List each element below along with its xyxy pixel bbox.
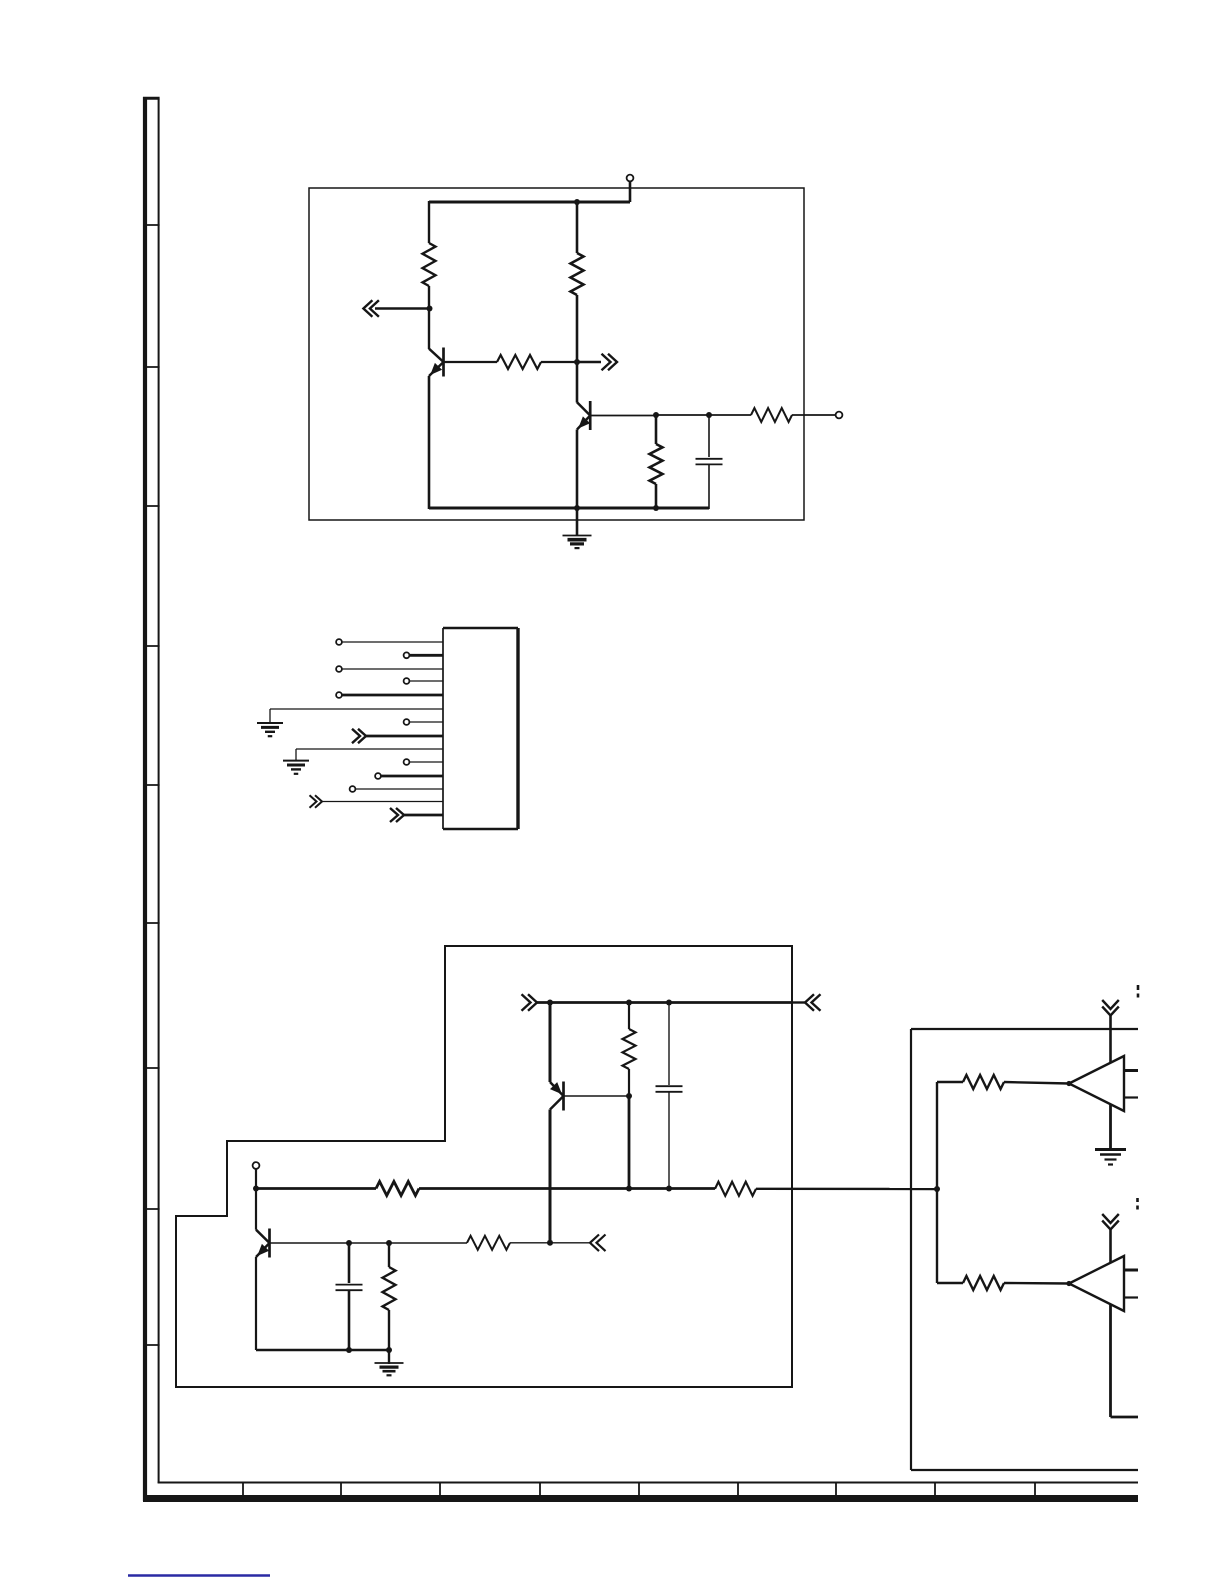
pin 6 wire bbox=[270, 709, 443, 723]
terminal P3 bbox=[253, 1162, 260, 1169]
pin 14 wire bbox=[404, 814, 443, 817]
pin 5 terminal bbox=[336, 692, 342, 698]
resistor R2 bbox=[497, 355, 541, 369]
ground GND4 bbox=[375, 1363, 404, 1375]
pin 11 wire bbox=[381, 775, 443, 778]
amplifier block box bbox=[309, 188, 804, 520]
node rail-R6 bbox=[626, 1000, 632, 1006]
pin 7 terminal bbox=[404, 719, 410, 725]
ground GND2 bbox=[257, 723, 283, 736]
node Q3-Q4 link bbox=[547, 1240, 553, 1246]
wire right branch upper bbox=[576, 202, 579, 253]
wire Q1 base lead bbox=[444, 361, 498, 363]
resistor R6 bbox=[623, 1029, 636, 1069]
driver block box bbox=[176, 946, 792, 1387]
pin 11 terminal bbox=[375, 773, 381, 779]
wire Q3 collector bbox=[549, 1001, 552, 1082]
wire P1 stub bbox=[629, 182, 632, 203]
ground GND5 bbox=[1095, 1150, 1126, 1165]
hyperlink underline bbox=[128, 1574, 270, 1577]
wire R6 stub bbox=[628, 1003, 630, 1030]
ground GND3 bbox=[283, 761, 309, 774]
wire R5 stub bottom bbox=[655, 484, 658, 509]
pin U1 out2 bbox=[1124, 1096, 1138, 1098]
wire Q3 base lead bbox=[564, 1095, 630, 1097]
wire Q4 emitter down bbox=[255, 1257, 257, 1350]
terminal P1 bbox=[627, 175, 634, 182]
wire to R11 bbox=[937, 1081, 963, 1083]
off-page connector OUT-A bbox=[602, 354, 618, 371]
node R10 top bbox=[386, 1240, 392, 1246]
wire R3 to Q2 bbox=[576, 295, 579, 403]
wire to R12 bbox=[937, 1282, 963, 1284]
wire Q2 base lead bbox=[590, 415, 656, 417]
wire base bus bbox=[349, 1242, 389, 1244]
resistor R3 bbox=[571, 253, 584, 295]
power arrow U2 bbox=[1102, 1214, 1119, 1230]
node mid-left bbox=[253, 1186, 259, 1192]
node C3 top bbox=[346, 1240, 352, 1246]
node Q1 base net bbox=[574, 359, 580, 365]
node Q3 base bbox=[626, 1093, 632, 1099]
pin 12 terminal bbox=[350, 786, 356, 792]
wire R12 to U2 bbox=[1004, 1282, 1069, 1285]
wire to R9 bbox=[389, 1242, 467, 1244]
connector J1 body bbox=[443, 628, 518, 829]
pin 9 wire bbox=[296, 749, 443, 760]
wire R1 to Q1 bbox=[428, 286, 430, 349]
wire emitter bus bbox=[256, 1349, 389, 1351]
wire split vertical bbox=[936, 1082, 938, 1283]
wire C2 stub top bbox=[668, 1003, 670, 1086]
pin 8 wire bbox=[366, 735, 443, 738]
wire Q4 collector bbox=[255, 1189, 257, 1230]
resistor R9 bbox=[467, 1236, 510, 1250]
ground GND1 bbox=[563, 536, 592, 549]
off-page connector IN-A bbox=[363, 300, 429, 317]
wire gnd stem bbox=[576, 508, 579, 536]
wire C3 stub top bbox=[348, 1243, 351, 1283]
pin U2 out2 bbox=[1124, 1296, 1138, 1298]
off-page connector pin13 bbox=[310, 795, 323, 807]
pin 4 terminal bbox=[404, 678, 410, 684]
wire mid bus bbox=[419, 1187, 715, 1190]
terminal P2 bbox=[836, 412, 843, 419]
transistor Q3 bbox=[550, 1082, 564, 1111]
wire Q3 emitter down bbox=[549, 1110, 552, 1244]
wire mid bus left bbox=[256, 1187, 376, 1190]
pin 3 wire bbox=[342, 668, 443, 670]
wire U2 vcc bbox=[1109, 1229, 1112, 1263]
node mid-C2 bbox=[666, 1186, 672, 1192]
resistor R4 bbox=[751, 408, 792, 422]
off-page connector pin8 bbox=[352, 729, 366, 743]
capacitor C1 bbox=[696, 459, 723, 465]
resistor R5 bbox=[650, 444, 663, 484]
power arrow U1 bbox=[1102, 1000, 1119, 1016]
wire ground bus bbox=[429, 507, 709, 510]
off-page connector VREG out bbox=[805, 994, 821, 1011]
wire U1 vcc bbox=[1109, 1015, 1112, 1063]
wire R5 stub top bbox=[655, 415, 658, 444]
wire R6 to base node bbox=[628, 1069, 630, 1097]
off-page connector FB bbox=[590, 1235, 606, 1252]
pin 5 wire bbox=[342, 694, 443, 697]
wire R10 stub bottom bbox=[388, 1310, 390, 1350]
node base node A bbox=[427, 306, 433, 312]
node VCC junction bbox=[574, 199, 580, 205]
op-amp U1 bbox=[1069, 1056, 1124, 1111]
wire R4 to P2 bbox=[792, 414, 835, 416]
pin 1 wire bbox=[342, 641, 443, 643]
wire left branch upper bbox=[428, 201, 430, 243]
wire C1 stub bottom bbox=[708, 464, 710, 509]
op-amp U2 bbox=[1069, 1256, 1124, 1311]
node C1 top bbox=[706, 412, 712, 418]
wire Q2 emitter down bbox=[576, 430, 579, 510]
comparator block box bbox=[911, 1029, 1138, 1470]
wire to off-page bbox=[577, 361, 601, 363]
wire C1 stub top bbox=[708, 415, 710, 457]
pin 3 terminal bbox=[336, 666, 342, 672]
capacitor C2 bbox=[656, 1086, 683, 1092]
wire mid bus right bbox=[756, 1188, 937, 1191]
node rail-Q3 bbox=[547, 1000, 553, 1006]
wire base net bbox=[656, 414, 709, 416]
transistor Q2 bbox=[577, 401, 590, 430]
wire R11 to U1 bbox=[1004, 1082, 1069, 1084]
wire P3 stub bbox=[255, 1169, 257, 1189]
clipped text U1 bbox=[1137, 985, 1140, 998]
node mid-R6 bbox=[626, 1186, 632, 1192]
wire U1 gnd stem bbox=[1109, 1105, 1112, 1149]
pin 1 terminal bbox=[336, 639, 342, 645]
node gnd bus 1 bbox=[574, 505, 580, 511]
transistor Q4 bbox=[256, 1229, 270, 1258]
wire Q1 emitter down bbox=[428, 376, 431, 509]
node ebus-C3 bbox=[346, 1347, 352, 1353]
wire R6 node down bbox=[628, 1097, 631, 1189]
wire VREG rail ext bbox=[792, 1001, 805, 1003]
node rail-C2 bbox=[666, 1000, 672, 1006]
pin 10 wire bbox=[410, 761, 444, 763]
resistor R10 bbox=[383, 1267, 396, 1310]
node ebus-R10 bbox=[386, 1347, 392, 1353]
wire R2 to node bbox=[541, 361, 577, 363]
pin U2 out1 bbox=[1124, 1269, 1138, 1272]
resistor R11 bbox=[963, 1075, 1004, 1089]
resistor R12 bbox=[963, 1276, 1004, 1290]
wire R10 stub top bbox=[388, 1243, 390, 1267]
capacitor C3 bbox=[336, 1285, 363, 1291]
wire R9 to node bbox=[510, 1242, 550, 1244]
wire C2 stub bottom bbox=[668, 1092, 670, 1189]
pin 13 wire bbox=[322, 801, 443, 803]
pin 7 wire bbox=[410, 721, 444, 723]
resistor R1 bbox=[423, 243, 436, 286]
pin 12 wire bbox=[356, 788, 444, 790]
pin U1 out1 bbox=[1124, 1069, 1138, 1072]
pin 10 terminal bbox=[404, 759, 410, 765]
node input split bbox=[934, 1186, 940, 1192]
pin 2 wire bbox=[410, 654, 444, 657]
wire C3 stub bottom bbox=[348, 1290, 351, 1350]
wire gnd stem 4 bbox=[388, 1350, 390, 1364]
off-page connector pin14 bbox=[390, 808, 404, 822]
off-page connector VREG in bbox=[522, 994, 538, 1011]
pin 2 terminal bbox=[404, 652, 410, 658]
node U2 input bbox=[1066, 1281, 1071, 1286]
transistor Q1 bbox=[429, 348, 444, 377]
clipped text U2 bbox=[1136, 1198, 1139, 1210]
resistor R7 bbox=[376, 1182, 419, 1196]
wire Q4 base lead bbox=[270, 1242, 350, 1244]
wire to R4 bbox=[709, 414, 751, 416]
resistor R8 bbox=[715, 1182, 756, 1196]
wire VCC top bbox=[429, 201, 630, 204]
wire to off-page B bbox=[550, 1242, 590, 1244]
pin 4 wire bbox=[410, 680, 444, 682]
wire VREG rail bbox=[537, 1001, 792, 1004]
wire U2 bottom bbox=[1111, 1305, 1139, 1418]
node gnd bus 2 bbox=[653, 505, 659, 511]
node R5 top bbox=[653, 412, 659, 418]
node U1 input bbox=[1066, 1081, 1071, 1086]
